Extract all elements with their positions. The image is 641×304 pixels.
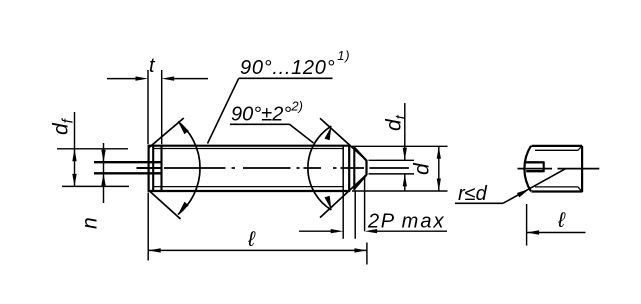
- label t: [149, 55, 156, 77]
- svg-text:ℓ: ℓ: [247, 228, 256, 251]
- thread minor diameter lines: [154, 149, 343, 187]
- head chamfer angle arc with arrows: [178, 122, 200, 215]
- label 2P max: [367, 211, 445, 233]
- dimension l (short screw length): [527, 204, 586, 246]
- slot flank lines (extend left as n extension lines): [94, 162, 162, 173]
- label d_t: [383, 114, 410, 131]
- label d: [411, 162, 434, 175]
- label n: [79, 217, 102, 229]
- leader line for angle 90...120: [208, 78, 333, 143]
- slot floor line inside slot: [137, 167, 161, 169]
- short screw slot: [526, 161, 544, 172]
- cone point angle arc with arrows: [308, 126, 332, 210]
- dimension d_f (extension lines, dimension line, arrows): [57, 112, 129, 186]
- dimension l (screw length, main view): [148, 193, 367, 265]
- dimension 2P max (incomplete thread length): [299, 176, 447, 239]
- slot bottom edge line: [160, 145, 162, 192]
- leader line r<=d with arrow to rounded end: [455, 169, 566, 204]
- dimension t (slot depth): [107, 70, 208, 144]
- label 90deg+-2deg with footnote 2: [231, 99, 303, 126]
- thread runout line: [342, 146, 344, 191]
- dimension d (thread diameter): [352, 146, 448, 191]
- center line (small view axis): [518, 168, 600, 170]
- label r<=d: [458, 183, 488, 205]
- screw body outline (main view): [149, 145, 350, 192]
- short screw thread minor lines with runout: [535, 147, 581, 192]
- leader line for angle 90+-2: [230, 124, 314, 143]
- svg-text:ℓ: ℓ: [557, 209, 566, 232]
- head chamfer angle construction lines: [149, 118, 184, 219]
- center line (main view axis, dash-dot): [164, 167, 409, 169]
- dimension d_t (point flat diameter): [369, 103, 415, 191]
- svg-text:2Pmax: 2Pmax: [367, 211, 445, 233]
- label d_f: [50, 117, 77, 135]
- short screw body outline: [532, 146, 583, 192]
- svg-text:d: d: [411, 162, 434, 175]
- label l (main view): [247, 228, 256, 251]
- svg-text:r≤d: r≤d: [458, 183, 488, 205]
- short screw rounded end arc: [524, 146, 531, 192]
- label l (small view): [557, 209, 566, 232]
- svg-text:n: n: [79, 217, 102, 229]
- cone point base line: [353, 147, 355, 191]
- label 90deg...120deg with footnote 1: [240, 48, 350, 79]
- head chamfer circle line: [152, 145, 154, 192]
- dimension n (slot width): [101, 143, 105, 203]
- cone point angle construction lines: [320, 118, 366, 217]
- cone point (chamfered tip): [354, 148, 366, 189]
